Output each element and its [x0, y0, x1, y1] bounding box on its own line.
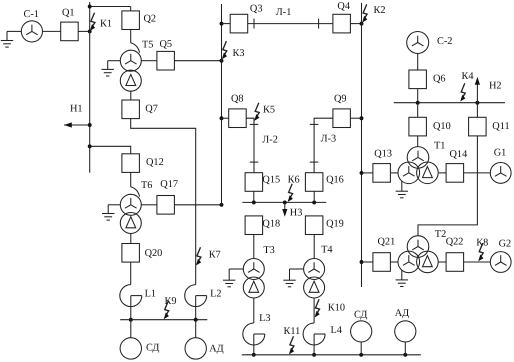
svg-text:К2: К2 — [374, 5, 386, 16]
svg-text:Н1: Н1 — [70, 103, 83, 114]
svg-text:Т5: Т5 — [142, 40, 153, 51]
svg-text:Q17: Q17 — [160, 179, 178, 190]
svg-text:К7: К7 — [209, 249, 221, 260]
svg-text:Л-3: Л-3 — [321, 134, 337, 145]
svg-text:К5: К5 — [263, 104, 275, 115]
svg-text:L2: L2 — [210, 289, 221, 300]
svg-text:Q1: Q1 — [62, 8, 75, 19]
svg-text:Т1: Т1 — [434, 140, 445, 151]
svg-text:АД: АД — [395, 308, 409, 319]
svg-text:Q20: Q20 — [145, 248, 163, 259]
svg-text:Q2: Q2 — [144, 14, 157, 25]
svg-text:С-2: С-2 — [437, 36, 452, 47]
svg-text:Q11: Q11 — [492, 121, 509, 132]
svg-text:Н3: Н3 — [290, 208, 303, 219]
svg-text:Q14: Q14 — [450, 149, 468, 160]
svg-text:СД: СД — [354, 309, 367, 320]
svg-text:К9: К9 — [165, 296, 177, 307]
svg-text:Q8: Q8 — [231, 94, 244, 105]
svg-text:Н2: Н2 — [489, 81, 502, 92]
svg-text:Q5: Q5 — [160, 39, 173, 50]
svg-text:L3: L3 — [259, 313, 270, 324]
svg-text:Q10: Q10 — [433, 121, 451, 132]
svg-text:АД: АД — [209, 343, 223, 354]
svg-text:Q19: Q19 — [326, 219, 344, 230]
svg-text:К10: К10 — [328, 302, 345, 313]
svg-text:Q4: Q4 — [337, 1, 350, 12]
svg-text:Q12: Q12 — [146, 157, 164, 168]
svg-text:Q7: Q7 — [145, 104, 158, 115]
svg-text:Т2: Т2 — [435, 229, 446, 240]
svg-text:СД: СД — [146, 343, 159, 354]
svg-text:Q6: Q6 — [433, 74, 446, 85]
svg-text:L1: L1 — [145, 289, 156, 300]
svg-text:G1: G1 — [494, 147, 507, 158]
svg-text:К11: К11 — [284, 326, 301, 337]
svg-text:Q16: Q16 — [326, 175, 344, 186]
svg-text:С-1: С-1 — [24, 9, 39, 20]
svg-text:G2: G2 — [499, 239, 512, 250]
svg-text:Т4: Т4 — [321, 245, 332, 256]
svg-text:Л-2: Л-2 — [262, 135, 278, 146]
svg-text:К1: К1 — [100, 19, 112, 30]
svg-text:Q9: Q9 — [334, 94, 347, 105]
svg-text:Q15: Q15 — [262, 175, 280, 186]
svg-text:Q21: Q21 — [378, 237, 396, 248]
svg-text:К3: К3 — [233, 48, 245, 59]
svg-text:Q13: Q13 — [374, 149, 392, 160]
svg-text:Л-1: Л-1 — [276, 7, 292, 18]
svg-text:К8: К8 — [476, 238, 488, 249]
svg-text:К6: К6 — [288, 175, 300, 186]
svg-text:L4: L4 — [331, 325, 342, 336]
svg-text:Q22: Q22 — [446, 237, 464, 248]
svg-text:Q18: Q18 — [262, 219, 280, 230]
svg-text:Т6: Т6 — [141, 180, 152, 191]
svg-text:Q3: Q3 — [250, 3, 263, 14]
svg-text:Т3: Т3 — [263, 245, 274, 256]
svg-text:К4: К4 — [462, 71, 474, 82]
